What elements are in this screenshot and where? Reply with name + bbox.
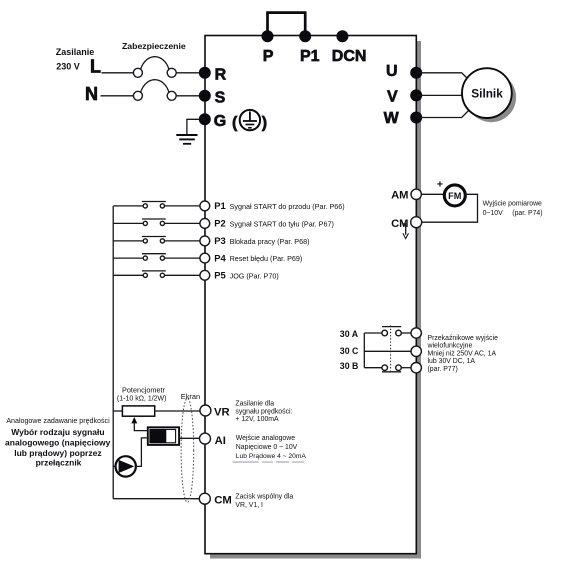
wire AM to FM xyxy=(422,193,445,195)
wire U to motor xyxy=(417,73,474,85)
wire row P4 xyxy=(113,257,145,259)
svg-text:R: R xyxy=(215,67,227,84)
current source xyxy=(116,456,136,476)
switch S1 xyxy=(142,202,166,208)
terminal R xyxy=(199,67,211,79)
wire fuse to S xyxy=(176,95,200,97)
svg-text:U: U xyxy=(386,63,398,80)
terminal P4 input xyxy=(200,253,210,263)
svg-text:AM: AM xyxy=(391,189,408,201)
wire current source to switch xyxy=(136,438,148,467)
svg-text:P3: P3 xyxy=(214,235,225,246)
svg-text:P5: P5 xyxy=(214,270,225,281)
terminal P1 input xyxy=(200,201,210,211)
switch S5 xyxy=(142,271,166,278)
svg-text:+: + xyxy=(437,178,443,190)
svg-text:VR: VR xyxy=(214,406,230,418)
wire V to motor xyxy=(417,94,468,96)
svg-text:(par. P77): (par. P77) xyxy=(428,366,458,373)
svg-text:W: W xyxy=(384,110,400,127)
wire 30C row xyxy=(364,350,411,352)
svg-text:30 A: 30 A xyxy=(340,329,359,339)
svg-text:Sygnał START do przodu (Par. P: Sygnał START do przodu (Par. P66) xyxy=(230,202,345,211)
terminal P2 input xyxy=(200,219,210,229)
svg-text:Blokada pracy (Par. P68): Blokada pracy (Par. P68) xyxy=(230,237,310,246)
svg-text:Zacisk wspólny dla: Zacisk wspólny dla xyxy=(235,493,293,500)
svg-text:Wyjście pomiarowe: Wyjście pomiarowe xyxy=(483,200,542,207)
terminal P1 xyxy=(299,30,311,42)
terminal CM (analog out common) xyxy=(411,217,422,228)
svg-text:Analogowe zadawanie prędkości: Analogowe zadawanie prędkości xyxy=(6,417,110,425)
wire FM loop to CM xyxy=(422,194,478,222)
terminal P3 input xyxy=(200,236,210,246)
svg-text:CM: CM xyxy=(214,495,232,507)
wire 30B to terminal xyxy=(401,367,411,369)
terminal 30C xyxy=(411,346,421,356)
earth ground symbol xyxy=(176,135,197,144)
svg-text:Napięciowe 0 ~ 10V: Napięciowe 0 ~ 10V xyxy=(236,444,298,451)
svg-text:Reset błędu (Par. P69): Reset błędu (Par. P69) xyxy=(230,254,303,263)
inverter box U1 xyxy=(205,36,416,554)
svg-text:Wejście analogowe: Wejście analogowe xyxy=(236,435,295,442)
wire row P3 xyxy=(113,240,145,242)
svg-text:FM: FM xyxy=(448,191,462,201)
svg-text:JOG (Par. P70): JOG (Par. P70) xyxy=(230,271,279,280)
svg-text:P4: P4 xyxy=(214,252,226,263)
svg-text:P1: P1 xyxy=(214,200,225,211)
wire fuse to R xyxy=(176,72,200,74)
input bus wire xyxy=(112,206,114,499)
relay contact NC (30B) xyxy=(382,365,401,372)
terminal VR xyxy=(200,405,211,416)
svg-text:L: L xyxy=(90,57,101,77)
wire G to earth xyxy=(187,119,200,135)
svg-text:DCN: DCN xyxy=(332,48,367,65)
terminal W xyxy=(410,112,422,124)
wire row P5 xyxy=(113,274,145,276)
fuse F2 (N) xyxy=(133,80,176,101)
wire L to fuse xyxy=(102,72,134,74)
arrow below CM xyxy=(402,224,409,239)
svg-text:Potencjometr: Potencjometr xyxy=(122,386,166,395)
terminal U xyxy=(410,67,422,79)
svg-text:S: S xyxy=(215,90,226,107)
fuse F1 (L phase) xyxy=(133,57,176,78)
svg-text:(1-10 kΩ, 1/2W): (1-10 kΩ, 1/2W) xyxy=(117,396,167,403)
svg-text:Silnik: Silnik xyxy=(471,86,503,100)
label CM description xyxy=(235,493,293,509)
wire row P2 xyxy=(113,222,145,224)
svg-text:Wybór rodzaju sygnału: Wybór rodzaju sygnału xyxy=(11,427,104,437)
inverter box drop shadow xyxy=(210,41,421,559)
svg-text:+ 12V, 100mA: + 12V, 100mA xyxy=(235,416,279,423)
potentiometer wiper arrow xyxy=(131,417,147,431)
switch S4 xyxy=(142,254,166,261)
terminal DCN xyxy=(336,30,348,42)
wire row P1 xyxy=(113,205,145,207)
svg-text:P: P xyxy=(263,48,274,65)
wire 30A row xyxy=(364,332,382,334)
motor shadow xyxy=(466,72,516,122)
terminal P5 input xyxy=(200,270,210,280)
wire N to fuse xyxy=(101,95,134,97)
meter FM xyxy=(444,185,465,206)
svg-text:Mniej niż 250V AC, 1A: Mniej niż 250V AC, 1A xyxy=(428,350,497,357)
svg-text:Sygnał START do tyłu (Par. P67: Sygnał START do tyłu (Par. P67) xyxy=(230,220,334,229)
terminal G xyxy=(199,113,211,125)
analog select switch xyxy=(148,427,179,445)
wire switch to AI xyxy=(179,437,200,439)
wire bus to CM bottom xyxy=(113,498,200,500)
svg-text:230 V: 230 V xyxy=(56,62,80,72)
svg-text:lub 30V DC, 1A: lub 30V DC, 1A xyxy=(428,358,476,365)
svg-text:P1: P1 xyxy=(300,48,320,65)
PE symbol in parentheses xyxy=(232,110,267,132)
svg-text:P2: P2 xyxy=(214,218,225,229)
relay contact NO (30A) xyxy=(382,327,401,336)
terminal AI xyxy=(200,433,211,444)
svg-text:Przekaźnikowe wyjście: Przekaźnikowe wyjście xyxy=(428,335,499,342)
terminal 30B xyxy=(411,363,421,373)
svg-text:VR, V1, I: VR, V1, I xyxy=(235,502,263,509)
svg-text:Ekran: Ekran xyxy=(181,392,200,401)
motor M (Silnik) xyxy=(462,68,512,118)
wire bus to current source xyxy=(113,465,116,467)
svg-text:G: G xyxy=(214,113,226,130)
terminal CM bottom xyxy=(199,493,210,504)
svg-text:AI: AI xyxy=(215,435,226,447)
label relay output text xyxy=(427,335,499,373)
svg-text:N: N xyxy=(85,84,98,104)
wire bus to potentiometer xyxy=(113,410,122,412)
terminal S xyxy=(199,90,211,102)
svg-text:wielofunkcyjne: wielofunkcyjne xyxy=(427,343,473,350)
svg-text:sygnału prędkości:: sygnału prędkości: xyxy=(235,408,292,415)
potentiometer R1 xyxy=(122,406,154,416)
svg-text:V: V xyxy=(387,89,398,106)
terminal AM xyxy=(411,189,421,199)
wire W to motor xyxy=(417,105,474,118)
switch S2 xyxy=(142,219,166,225)
jumper link P-P1 xyxy=(268,13,306,34)
terminal P xyxy=(262,30,274,42)
shield ellipse Ekran xyxy=(181,398,194,502)
terminal V xyxy=(410,89,422,101)
svg-text:przełącznik: przełącznik xyxy=(36,457,82,467)
svg-text:(par. P74): (par. P74) xyxy=(512,210,542,217)
svg-text:Zabezpieczenie: Zabezpieczenie xyxy=(122,41,186,51)
wire 30B row xyxy=(364,367,382,369)
terminal 30A xyxy=(411,328,421,338)
svg-text:30 C: 30 C xyxy=(340,346,359,356)
label analog source description xyxy=(5,417,111,467)
svg-text:30 B: 30 B xyxy=(340,361,359,371)
wire 30A to terminal xyxy=(401,332,411,334)
svg-text:Zasilanie: Zasilanie xyxy=(56,47,95,57)
wire potentiometer to VR xyxy=(155,410,200,412)
svg-text:): ) xyxy=(262,115,267,132)
relay linkage dashed xyxy=(390,326,392,371)
svg-text:Zasilanie dla: Zasilanie dla xyxy=(235,401,274,408)
svg-text:analogowego (napięciowy: analogowego (napięciowy xyxy=(5,438,111,448)
relay left link wire xyxy=(363,333,365,368)
switch S3 xyxy=(142,237,166,243)
svg-text:(: ( xyxy=(232,115,238,132)
faint print remnant xyxy=(233,461,305,463)
svg-text:Lub Prądowe 4 ~ 20mA: Lub Prądowe 4 ~ 20mA xyxy=(236,453,307,460)
label AI description xyxy=(236,435,307,460)
svg-text:0~10V: 0~10V xyxy=(483,210,504,217)
label VR description xyxy=(235,401,292,424)
